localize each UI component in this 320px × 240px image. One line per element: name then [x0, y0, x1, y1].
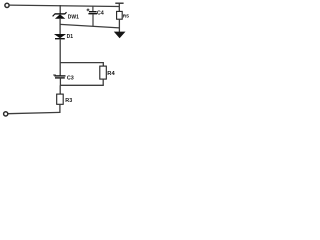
svg-text:R3: R3 [65, 98, 72, 104]
terminal T2 (bottom-left) [4, 112, 8, 116]
wire loop bottom [60, 84, 104, 86]
wire middle (DW1/D1 node to ground node) [60, 24, 119, 28]
svg-text:R4: R4 [107, 71, 115, 77]
wire main vertical top segment [59, 5, 61, 14]
node top T-bar terminal [115, 2, 123, 4]
wire C3 to loop bottom [59, 78, 61, 85]
terminal T1 (top-left input) [5, 3, 9, 7]
svg-text:D1: D1 [67, 34, 74, 40]
wire DW1 to D1 [59, 19, 61, 35]
resistor R4 [100, 66, 107, 79]
zener diode DW1 [53, 12, 80, 20]
capacitor C4 [87, 6, 104, 27]
diode D1 [54, 34, 73, 40]
wire R5 to ground [118, 19, 120, 32]
wire loop bottom node to R3 [59, 85, 61, 94]
wire T-bar to R5 [118, 3, 120, 11]
wire R4 to loop bottom [102, 79, 104, 85]
ground [114, 32, 126, 39]
wire loop top (to R4 branch) [60, 63, 103, 67]
svg-text:R5: R5 [123, 13, 129, 19]
wire R3 to bottom rail [59, 104, 61, 113]
capacitor C3 [53, 75, 74, 82]
resistor R5 [117, 11, 123, 19]
wire D1 down through loop-top node to C3 [59, 39, 61, 76]
resistor R3 [57, 94, 64, 104]
svg-text:C3: C3 [67, 76, 74, 82]
svg-text:DW1: DW1 [68, 14, 79, 20]
wire bottom rail [8, 112, 61, 113]
svg-text:C4: C4 [97, 10, 104, 16]
wire top rail [9, 5, 119, 6]
